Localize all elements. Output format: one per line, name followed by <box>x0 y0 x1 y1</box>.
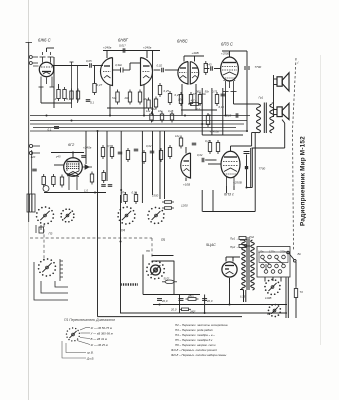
resistor R7 20к <box>128 90 131 105</box>
svg-text:Ф1І-8 – Перемыч. колодки prese: Ф1І-8 – Перемыч. колодки present <box>171 348 217 352</box>
capacitor C3 0,05 <box>90 63 92 68</box>
resistor R26 <box>216 140 219 154</box>
resistor R17 <box>102 170 105 183</box>
svg-text:6Н8С: 6Н8С <box>177 39 189 44</box>
resistor R15 left of V5 <box>42 174 45 187</box>
svg-text:47к: 47к <box>121 191 126 195</box>
wire V5 top rail <box>51 152 84 154</box>
wire П6 h2 <box>152 260 175 262</box>
resistor R12 27к <box>189 92 192 106</box>
capacitor C2 top pair <box>70 62 78 108</box>
svg-text:Вг: Вг <box>298 252 302 256</box>
resistor R36 4,7к <box>188 103 201 106</box>
svg-text:5Ц4С: 5Ц4С <box>206 243 216 247</box>
switch wafer П1а <box>36 206 55 225</box>
svg-text:4,7 к: 4,7 к <box>191 99 197 103</box>
wire speaker bottom join <box>252 147 285 149</box>
svg-text:20,0: 20,0 <box>170 308 177 312</box>
svg-text:7700: 7700 <box>255 65 262 69</box>
svg-text:П4: П4 <box>121 229 125 233</box>
svg-text:у45: у45 <box>55 155 61 159</box>
tube V8 envelope <box>222 257 240 283</box>
resistor R4 <box>76 89 79 102</box>
wire C3 to V2 <box>93 65 104 67</box>
svg-text:П3 – Переключ. рода работ: П3 – Переключ. рода работ <box>175 328 214 332</box>
wire selector pin a <box>264 277 266 282</box>
svg-text:П6 – Переключ. напряж. сети: П6 – Переключ. напряж. сети <box>175 343 216 347</box>
svg-text:+10В: +10В <box>183 183 190 187</box>
capacitor C21b <box>108 185 113 187</box>
wire x54 vertical <box>53 57 55 108</box>
legend switch П1 symbol <box>66 327 80 341</box>
wire R5 top <box>94 66 96 84</box>
svg-text:10в: 10в <box>158 109 163 113</box>
wire x255 to bus <box>254 133 256 212</box>
svg-text:Пр2 →: Пр2 → <box>230 245 239 249</box>
tube V3 left section envelope <box>178 62 188 85</box>
wire mid bus y211 <box>203 211 256 213</box>
wire C7 left <box>154 69 161 71</box>
svg-text:510*: 510* <box>164 277 171 281</box>
svg-text:0,43: 0,43 <box>206 63 212 67</box>
resistor R30 510 oval <box>162 280 177 284</box>
wire x143 vertical <box>142 255 144 295</box>
wire L-shape c <box>55 281 68 287</box>
resistor R40 <box>147 98 150 111</box>
svg-text:7700: 7700 <box>259 167 266 171</box>
svg-text:0,25: 0,25 <box>205 139 211 143</box>
wire V4 cathode down <box>225 92 227 116</box>
wire V7 plate to Tr <box>231 145 252 147</box>
svg-text:Радиоприемник Мир М-152: Радиоприемник Мир М-152 <box>300 136 307 226</box>
resistor R27 near П4 <box>124 192 127 204</box>
capacitor C12 <box>118 152 123 154</box>
svg-text:+40В: +40В <box>192 51 199 55</box>
svg-text:П2 – Переключ. частоты гетерод: П2 – Переключ. частоты гетеродина <box>175 323 228 327</box>
svg-text:20,0: 20,0 <box>206 299 213 303</box>
svg-text:6П3 с: 6П3 с <box>224 193 234 197</box>
wire x204 vertical <box>204 295 206 314</box>
wire x229 rectifier down <box>229 283 231 305</box>
wire П6 h1 <box>152 255 174 257</box>
svg-text:ср.В.: ср.В. <box>87 351 94 355</box>
wire V1 top rail <box>47 47 55 49</box>
wire R1 top <box>58 84 60 88</box>
capacitor C9 7700 top <box>244 67 250 69</box>
wire V3 plate top <box>183 56 185 62</box>
resistor R15b <box>52 174 55 187</box>
svg-text:0,25: 0,25 <box>164 89 170 93</box>
resistor R11 0,25 <box>179 92 182 106</box>
wire R32 down <box>295 298 297 318</box>
svg-text:1,0: 1,0 <box>84 189 88 193</box>
wire spk2 to corner <box>282 120 285 123</box>
wire left top tick <box>26 42 33 44</box>
wire V3 top rail <box>184 55 204 57</box>
page left edge <box>28 0 30 400</box>
svg-text:Пр1 →: Пр1 → <box>230 237 239 241</box>
capacitor C25 <box>236 113 238 118</box>
wire V2 bottom row <box>107 107 152 109</box>
wire V4 plate to Tr <box>234 103 251 105</box>
resistor R32 right edge <box>294 286 297 300</box>
svg-text:51к: 51к <box>112 96 117 100</box>
wire V2 top rail <box>103 50 160 52</box>
dashed divider horizontal <box>30 237 152 239</box>
tube V5 envelope <box>64 158 83 190</box>
svg-text:+240в: +240в <box>103 46 112 50</box>
page right edge <box>320 55 322 345</box>
svg-text:0,5: 0,5 <box>107 144 111 148</box>
resistor R16 <box>90 172 93 185</box>
terminal antenna <box>29 144 40 154</box>
small circle K1 <box>43 186 49 192</box>
svg-text:В2: В2 <box>267 312 271 316</box>
coil L1 input <box>27 194 35 212</box>
resistor R28 <box>134 192 137 204</box>
wire x286 vertical <box>285 278 287 319</box>
tube V3 right section envelope <box>190 62 198 85</box>
resistor R21 <box>142 150 145 164</box>
resistor R20 <box>126 148 129 162</box>
resistor R14 12к <box>215 92 218 106</box>
switch wafer П2 <box>60 208 74 222</box>
tube V2 right section envelope <box>141 58 153 86</box>
resistor R10 0,25 <box>168 91 171 105</box>
svg-text:127в: 127в <box>269 250 275 254</box>
wire V2 right cathode down <box>143 85 145 116</box>
wire rail y304 <box>153 304 287 306</box>
wire y135 link <box>202 134 243 136</box>
svg-text:0,02: 0,02 <box>146 144 152 148</box>
dashed link vertical right <box>151 238 153 257</box>
transformer Tr1 output <box>257 103 274 134</box>
speaker Гр2 <box>277 103 289 119</box>
resistor R35 47к <box>206 113 209 127</box>
wire V4 grid left <box>214 68 221 70</box>
wire V7 plate up <box>230 146 232 151</box>
wire y192 long <box>44 192 106 194</box>
resistor R15c 10 <box>60 175 63 188</box>
wire V3 left cathode down <box>181 84 183 116</box>
wire bus 4 <box>33 127 236 129</box>
wire x247 down <box>246 51 248 66</box>
parts below П1а <box>36 225 44 233</box>
wire x247 down2 <box>246 70 248 131</box>
transformer Tr2 power <box>240 239 254 302</box>
wire left second vertical <box>31 150 33 212</box>
fuse Пр2 symbol <box>239 245 250 248</box>
wire selector pin b <box>272 277 274 281</box>
svg-text:0,75: 0,75 <box>212 89 218 93</box>
switch wafer B2b <box>268 304 282 318</box>
wire AVC bus 2 <box>30 120 247 122</box>
capacitor C26 0,1 bus <box>54 127 59 129</box>
svg-text:6Н8Г: 6Н8Г <box>118 38 129 43</box>
resistor R38 10в bus <box>160 112 163 123</box>
switch wafer B2a <box>264 279 281 296</box>
resistor R41 <box>154 97 157 110</box>
svg-text:+250В: +250В <box>221 52 230 56</box>
wire under V3 row <box>181 109 217 111</box>
wire V4 top rail <box>222 50 247 52</box>
svg-text:П4 – Переключ. тембра « в »: П4 – Переключ. тембра « в » <box>175 333 215 337</box>
wire L-shape b <box>41 281 68 293</box>
svg-text:П1 Переключатель Диапазонов: П1 Переключатель Диапазонов <box>64 318 115 322</box>
wire x202 vertical <box>201 190 203 212</box>
capacitor C16 0,02 <box>202 158 204 163</box>
svg-text:0,25: 0,25 <box>175 93 181 97</box>
wire V5 grid left <box>54 164 64 166</box>
resistor R39 bus <box>170 112 173 123</box>
capacitor C6 3,3Ш coupling <box>113 68 130 73</box>
svg-text:12к: 12к <box>151 107 156 111</box>
resistor R1 below V1 <box>57 87 60 101</box>
wire rail y313 <box>120 312 287 314</box>
svg-text:100: 100 <box>178 98 183 102</box>
svg-text:Дл.В.: Дл.В. <box>86 357 94 361</box>
svg-text:1500: 1500 <box>152 194 159 198</box>
capacitor C21a <box>101 185 106 187</box>
resistor R23 <box>168 145 171 159</box>
resistor R33 2Вт <box>186 298 199 301</box>
svg-text:110в: 110в <box>258 250 264 254</box>
wire V2 left plate up <box>106 51 108 59</box>
svg-text:0,01*: 0,01* <box>119 44 127 48</box>
terminal circles top left <box>29 56 38 65</box>
junction blob <box>245 166 248 169</box>
wire bottom rail y316 <box>98 316 243 318</box>
wire V2 right plate up <box>146 51 148 59</box>
svg-text:120: 120 <box>31 155 36 159</box>
svg-text:П5: П5 <box>161 238 165 242</box>
svg-text:П6: П6 <box>146 249 150 253</box>
wire x168 vertical <box>164 131 166 199</box>
svg-text:6,3В: 6,3В <box>240 296 245 299</box>
wire x107 vertical <box>106 131 108 181</box>
legend callout lines <box>62 328 90 359</box>
svg-text:20к: 20к <box>124 96 130 100</box>
svg-text:0,05: 0,05 <box>132 191 138 195</box>
svg-text:(: ( <box>298 61 300 65</box>
svg-text:0,1: 0,1 <box>90 101 94 105</box>
wire V7 pin down <box>233 186 235 190</box>
dashed link vertical left <box>43 224 45 261</box>
wire V1 bottom join <box>41 102 72 104</box>
resistor R29a <box>162 201 174 204</box>
wire x179 vertical <box>179 295 181 314</box>
wire x152 vertical <box>152 51 154 116</box>
wire V5 plate top <box>72 153 74 158</box>
wire x160 vertical <box>159 131 161 199</box>
wire C17 corner <box>247 187 253 189</box>
resistor R34 <box>179 308 191 311</box>
svg-text:360: 360 <box>196 90 201 94</box>
wire x142 vertical <box>141 131 143 203</box>
wire C7 right <box>165 69 179 71</box>
resistor R13 10к <box>198 92 201 106</box>
capacitor C20 20,0 <box>202 299 207 301</box>
capacitor C14 0,02 <box>150 151 155 153</box>
resistor R24 12к <box>179 136 182 149</box>
capacitor C17 7700 lower <box>244 152 250 154</box>
resistor R42 grid stopper <box>204 61 207 75</box>
svg-text:Тд: Тд <box>300 290 304 294</box>
bracket contacts right of П1б <box>60 259 63 281</box>
wire Tr1 topright to spk <box>272 102 274 104</box>
svg-text:+240в: +240в <box>83 146 92 150</box>
switch П6 hub <box>151 265 161 275</box>
svg-text:Гр1: Гр1 <box>259 96 264 100</box>
svg-text:Ф2І-8 – Перемыч. колодки набор: Ф2І-8 – Перемыч. колодки набора смены <box>171 353 227 357</box>
voltage selector block <box>257 247 290 278</box>
svg-text:20,0: 20,0 <box>161 299 168 303</box>
tube V6 envelope <box>181 153 191 178</box>
wire selector pin c <box>280 277 282 282</box>
wire bus 5 <box>30 130 247 132</box>
wire Tr1 bottom left <box>252 132 259 134</box>
resistor R31 wirewound dashed <box>121 283 139 285</box>
capacitor C18 20,0 <box>157 299 162 301</box>
diode arrow <box>82 165 92 169</box>
svg-text:110В: 110В <box>265 296 271 300</box>
svg-text:Тр2: Тр2 <box>249 235 254 239</box>
svg-text:П3: П3 <box>49 232 53 236</box>
wire V4 plate top <box>229 51 231 57</box>
wire V2 left cathode down <box>109 85 111 116</box>
wire V1 plate top <box>46 48 48 52</box>
svg-text:0,47: 0,47 <box>97 83 103 87</box>
svg-text:0,05: 0,05 <box>86 59 92 63</box>
wire V6 cathode down <box>185 178 187 182</box>
capacitor C8 <box>221 94 226 96</box>
capacitor C10 left of V5 <box>32 169 37 171</box>
wire Tr1 top left <box>250 103 259 105</box>
svg-text:12к: 12к <box>146 109 151 113</box>
wire AVC bus 1 <box>30 115 250 117</box>
wire x288 vertical <box>287 278 289 319</box>
wire C27 left <box>204 68 209 70</box>
wire L-shape a <box>34 262 68 300</box>
svg-text:3,3Ш: 3,3Ш <box>115 63 122 67</box>
svg-text:1200: 1200 <box>181 204 188 208</box>
svg-text:П5 – Переключ. тембра б к: П5 – Переключ. тембра б к <box>175 338 213 342</box>
svg-text:12к: 12к <box>175 134 180 138</box>
resistor R22 <box>159 148 162 162</box>
wire x97 long vertical <box>97 131 99 317</box>
tube V1 pins below <box>39 77 55 88</box>
wire V7 grid left <box>208 163 221 165</box>
tube V2 left section envelope <box>101 58 113 86</box>
wire C16 right <box>205 159 216 161</box>
wire x222 upper <box>222 88 224 135</box>
wire spk2 stub b <box>274 114 278 116</box>
wire spk1 stub b <box>274 84 278 86</box>
wire Tr right leg <box>251 133 253 147</box>
wire x174 vertical <box>173 261 175 295</box>
wire V1 grid stub <box>33 65 39 67</box>
svg-text:+24,0в: +24,0в <box>210 130 220 134</box>
wire left vertical bus <box>28 42 30 222</box>
svg-text:У — кВ 365-56 м: У — кВ 365-56 м <box>91 332 113 336</box>
capacitor C19 20,0 <box>179 299 184 301</box>
switch wafer П1б lower <box>38 258 57 277</box>
svg-text:Ж — кВ 50-75 м: Ж — кВ 50-75 м <box>90 326 112 330</box>
svg-text:0,25: 0,25 <box>168 109 174 113</box>
tube V4 envelope <box>221 57 239 92</box>
svg-text:С25: С25 <box>226 114 232 118</box>
wire x121 vertical <box>120 131 122 203</box>
wire grid line y65.5 <box>52 65 88 67</box>
tube V7 envelope <box>221 151 240 186</box>
svg-text:10к: 10к <box>143 97 148 101</box>
switch wafer П5 <box>147 207 165 225</box>
svg-text:В — кВ 31 м: В — кВ 31 м <box>91 337 108 341</box>
resistor R2 below V1 <box>63 87 66 101</box>
svg-text:6П3 С: 6П3 С <box>221 42 234 47</box>
wire В1 down <box>295 262 297 286</box>
capacitor C4 0,1 <box>86 100 91 102</box>
svg-text:2,2: 2,2 <box>195 107 200 111</box>
wire V1 cathode down <box>40 87 42 103</box>
svg-text:6Г2: 6Г2 <box>68 143 75 147</box>
svg-text:1: 1 <box>55 97 57 101</box>
svg-text:0,02: 0,02 <box>197 153 203 157</box>
wire x213 vertical <box>212 190 214 212</box>
wire V6 plate up <box>185 147 187 154</box>
capacitor C27 0,43 <box>211 66 213 71</box>
svg-text:0,1: 0,1 <box>67 97 71 101</box>
resistor R19 0,5 <box>110 145 113 159</box>
wire x202 upper <box>201 88 203 135</box>
resistor R9 <box>158 83 161 97</box>
svg-text:Ж — кВ 25 м: Ж — кВ 25 м <box>90 343 108 347</box>
wire V4 right pin down <box>233 92 235 105</box>
wire speaker right link <box>284 123 286 148</box>
resistor R18 <box>101 145 104 159</box>
resistor R6 51к <box>116 90 119 105</box>
svg-text:0,1: 0,1 <box>48 128 52 132</box>
wire spk1 stub a <box>274 78 278 80</box>
wire x211 upper <box>211 88 213 135</box>
wire x120 vertical low <box>120 195 122 313</box>
switch wafer П4 <box>117 206 135 225</box>
svg-text:0,02: 0,02 <box>157 64 163 68</box>
resistor R5 0,47 <box>93 81 96 95</box>
fuse Пр1 symbol <box>239 237 250 240</box>
capacitor C5 0,01 top <box>123 48 125 53</box>
svg-text:47к: 47к <box>207 113 212 117</box>
wire x86 vertical <box>85 131 87 164</box>
wire V3 right cathode down <box>195 84 197 110</box>
wire V3 right plate up <box>194 56 196 62</box>
switch В1 <box>287 251 296 262</box>
resistor R3 <box>70 89 73 102</box>
switch wafer П6 <box>146 260 165 279</box>
wire speaker feed up <box>273 75 275 117</box>
svg-text:6Ж6 С: 6Ж6 С <box>38 38 52 43</box>
wire C17 down <box>246 155 248 188</box>
resistor R37 12к bus <box>150 112 153 123</box>
resistor R25 <box>208 140 211 154</box>
svg-text:0,15: 0,15 <box>219 105 225 109</box>
wire x152 vertical3 <box>152 131 154 195</box>
tube V1 6Ж6С envelope <box>39 52 53 77</box>
resistor R29b <box>162 207 174 210</box>
wire double v b <box>251 148 253 188</box>
wire double v a <box>250 148 252 188</box>
wire V2 mid vertical <box>129 63 131 70</box>
